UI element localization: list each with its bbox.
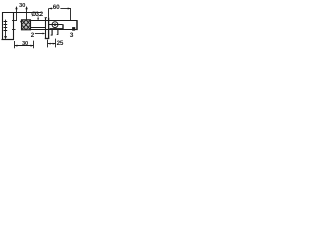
knurled nut body: [22, 20, 31, 30]
pin dimension left extension: [47, 40, 49, 48]
bottom dimension left extension: [14, 41, 16, 48]
knurled nut lattice \3: [26, 20, 31, 25]
dimension 30 right extension: [26, 9, 28, 20]
knurled nut lattice /3: [26, 25, 31, 30]
svg-text:30: 30: [19, 3, 26, 9]
plunger stem: [5, 20, 7, 37]
knurled nut lattice /1: [22, 20, 31, 30]
spring rung 1: [4, 21, 8, 23]
dimension 30 left arrow: [15, 6, 17, 9]
body right edge: [76, 20, 78, 30]
bottom dimension line: [15, 45, 34, 47]
pin dimension right extension: [55, 39, 57, 48]
dimension 60 right extension: [70, 8, 72, 20]
bracket plate left edge: [2, 12, 4, 40]
pin 1 foot: [51, 34, 53, 36]
bracket plate bottom edge: [2, 39, 15, 41]
bracket plate top edge / leader shelf: [2, 12, 42, 14]
dimension 30 left extension: [16, 9, 18, 21]
svg-text:60: 60: [53, 4, 60, 11]
hole center dot: [54, 24, 56, 26]
dimension 30 right arrow: [25, 6, 27, 9]
hole circle: [52, 22, 58, 28]
slot top bar: [49, 24, 63, 26]
dimension 60 line right: [60, 8, 70, 10]
bracket plate right edge: [13, 12, 15, 40]
plunger arrowhead: [4, 36, 7, 39]
terminal block right: [72, 27, 75, 31]
svg-text:Ø3.2: Ø3.2: [31, 11, 43, 18]
flange top cap: [45, 17, 47, 19]
svg-text:2: 2: [31, 32, 35, 39]
pin 2: [57, 30, 59, 35]
knurled nut lattice \1: [22, 20, 31, 30]
pin 2 foot: [57, 34, 58, 36]
hole leader arrowhead: [37, 18, 39, 20]
bottom dimension left arrowhead: [14, 45, 17, 47]
svg-text:30: 30: [22, 41, 28, 47]
knurled nut lattice \2: [22, 25, 27, 30]
pin dimension left arrowhead: [48, 43, 51, 45]
tick at plate bottom right: [12, 29, 16, 31]
hole leader stem: [37, 16, 39, 18]
flange left edge: [45, 17, 47, 39]
dimension 60 left arrowhead: [49, 8, 52, 10]
dimension 60 right arrowhead: [68, 8, 71, 10]
label 2 leader: [35, 33, 43, 35]
svg-text:3: 3: [70, 32, 74, 39]
flange foot: [45, 38, 49, 40]
label 2 arrowhead: [43, 33, 46, 35]
pin dimension line: [48, 43, 56, 45]
flange right edge: [48, 18, 50, 39]
slot end cap: [62, 24, 63, 29]
spring rung 2: [4, 24, 8, 26]
bottom dimension right arrowhead: [31, 45, 34, 47]
pin dimension right arrowhead: [53, 43, 56, 45]
leader dot at nut corner: [20, 21, 22, 23]
bottom dimension right extension: [33, 41, 35, 49]
spring rung 4: [4, 30, 8, 32]
top edge line: [30, 20, 77, 22]
pin 1: [51, 30, 53, 36]
shaft top line: [30, 27, 45, 29]
knurled nut lattice /2: [22, 20, 27, 25]
spring rung 3: [4, 27, 8, 29]
flange right edge extension: [48, 8, 50, 17]
slot bottom bar: [50, 28, 63, 30]
dimension 60 line left: [49, 8, 52, 10]
tick at plate top right: [12, 20, 17, 22]
svg-text:25: 25: [57, 40, 64, 47]
bottom edge line: [30, 29, 77, 31]
